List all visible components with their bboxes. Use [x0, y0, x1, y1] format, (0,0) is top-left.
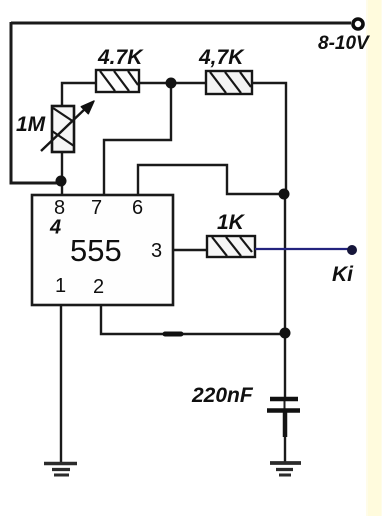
- svg-text:Ki: Ki: [332, 263, 354, 286]
- svg-text:4.7K: 4.7K: [97, 46, 144, 69]
- svg-text:555: 555: [70, 233, 122, 268]
- svg-text:4,7K: 4,7K: [198, 46, 245, 69]
- svg-text:1: 1: [55, 275, 66, 297]
- svg-text:220nF: 220nF: [191, 384, 254, 407]
- svg-text:7: 7: [91, 197, 102, 219]
- svg-text:8-10V: 8-10V: [318, 33, 370, 54]
- svg-text:1M: 1M: [16, 113, 46, 136]
- svg-text:1K: 1K: [217, 211, 246, 234]
- svg-text:4: 4: [49, 217, 61, 239]
- svg-text:3: 3: [151, 240, 162, 262]
- svg-text:2: 2: [93, 276, 104, 298]
- svg-text:6: 6: [132, 197, 143, 219]
